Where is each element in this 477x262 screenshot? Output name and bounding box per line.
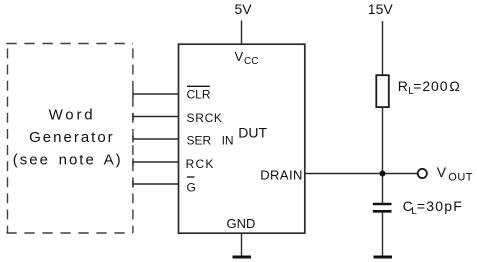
svg-text:CC: CC <box>244 56 258 67</box>
svg-text:V: V <box>235 49 244 64</box>
label: Word Generator (see note A) <box>13 107 123 169</box>
svg-text:DRAIN: DRAIN <box>260 167 303 182</box>
svg-text:15V: 15V <box>368 1 394 17</box>
svg-text:G: G <box>187 181 196 195</box>
wire: word generator to RCK <box>133 159 179 166</box>
wire: 5V to VCC pin <box>241 21 243 45</box>
label CL=30pF <box>403 198 463 217</box>
svg-text:=200: =200 <box>413 78 448 94</box>
svg-text:5V: 5V <box>235 1 253 17</box>
wire: word generator to G <box>133 181 179 188</box>
wire: word generator to SER IN <box>133 136 179 143</box>
wire: GND pin to ground <box>241 233 243 257</box>
ground symbol below capacitor <box>374 256 393 259</box>
pin VCC label <box>235 49 259 67</box>
wire: word generator to CLR <box>133 91 179 98</box>
svg-text:GND: GND <box>227 216 256 231</box>
resistor RL <box>376 75 389 107</box>
wire: DRAIN to VOUT terminal <box>305 173 418 175</box>
label RL=200 ohm <box>398 78 460 97</box>
wire: capacitor to ground <box>382 213 384 257</box>
label V OUT <box>437 164 473 183</box>
pin CLR label with overline <box>187 86 211 101</box>
junction node dot <box>380 171 386 177</box>
svg-text:R: R <box>398 78 408 94</box>
svg-text:Ω: Ω <box>449 78 459 94</box>
svg-text:=30pF: =30pF <box>417 198 463 214</box>
svg-text:(see note A): (see note A) <box>13 152 123 169</box>
svg-text:SRCK: SRCK <box>187 111 223 125</box>
pin G label with overline <box>187 177 196 195</box>
svg-text:Word: Word <box>49 107 96 124</box>
DUT box U1 <box>179 44 305 233</box>
svg-text:V: V <box>437 164 447 180</box>
capacitor CL plates <box>373 204 392 211</box>
word generator dashed box <box>6 44 133 234</box>
svg-text:OUT: OUT <box>448 171 473 183</box>
svg-text:SERIN: SERIN <box>187 134 234 148</box>
svg-text:RCK: RCK <box>186 157 215 171</box>
VOUT terminal circle <box>418 169 427 178</box>
svg-text:CLR: CLR <box>187 88 211 102</box>
wire: resistor to capacitor (through junction) <box>382 107 384 204</box>
wire: 15V to resistor <box>382 21 384 76</box>
svg-text:DUT: DUT <box>238 125 267 141</box>
svg-text:Generator: Generator <box>29 129 115 146</box>
ground symbol below DUT <box>233 256 252 259</box>
wire: word generator to SRCK <box>133 113 179 120</box>
